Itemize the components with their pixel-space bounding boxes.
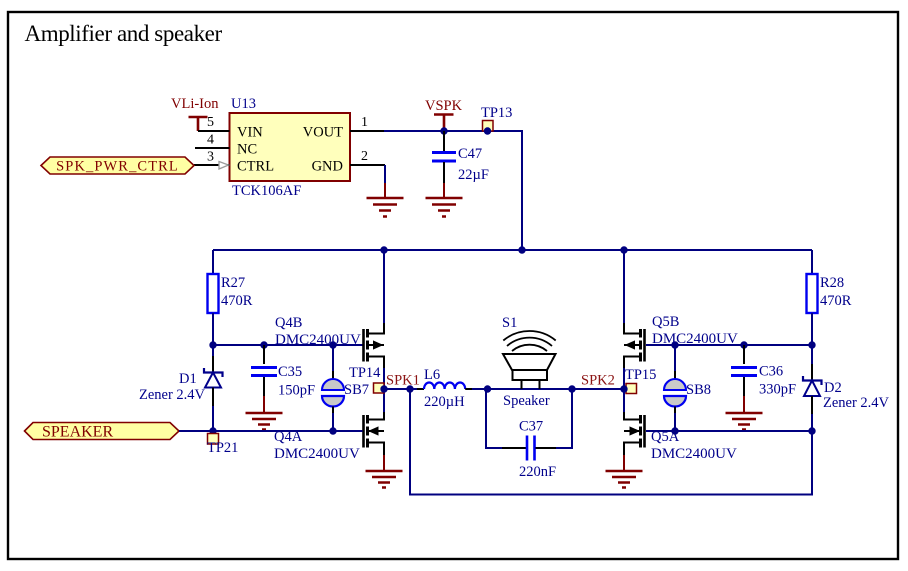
svg-text:470R: 470R: [820, 293, 852, 309]
resistor R27: [208, 250, 253, 345]
ground below C47: [426, 183, 463, 217]
capacitor C36: [731, 345, 796, 398]
svg-text:SPEAKER: SPEAKER: [42, 424, 113, 441]
ground below C35: [246, 396, 283, 430]
U13 pin 4 NC stub: [195, 133, 230, 149]
svg-text:Zener 2.4V: Zener 2.4V: [823, 395, 890, 411]
inductor L6: [417, 367, 472, 410]
junction left gate at SB7: [329, 341, 336, 348]
svg-text:Zener 2.4V: Zener 2.4V: [139, 387, 206, 403]
svg-text:Q5B: Q5B: [652, 314, 679, 330]
ground below U13: [367, 183, 404, 217]
speaker S1: [502, 315, 556, 409]
ground below C36: [726, 396, 763, 430]
svg-text:U13: U13: [231, 96, 256, 112]
junction SPEAKER at SB7: [329, 427, 336, 434]
svg-text:220nF: 220nF: [519, 464, 556, 480]
svg-text:VIN: VIN: [237, 125, 263, 141]
svg-text:220µH: 220µH: [424, 394, 465, 410]
svg-text:S1: S1: [502, 315, 517, 331]
junction SPK2 node: [620, 385, 627, 392]
svg-text:DMC2400UV: DMC2400UV: [651, 446, 737, 462]
svg-text:2: 2: [361, 149, 368, 164]
junction SPK1 at bottom loop: [406, 385, 413, 392]
solder bridge SB7: [322, 345, 369, 431]
ground below Q4A: [366, 455, 403, 488]
junction right gate at R28: [808, 341, 815, 348]
diode D2 zener: [803, 345, 890, 431]
junction left gate at C35: [260, 341, 267, 348]
svg-text:150pF: 150pF: [278, 383, 315, 399]
wire L6 to speaker: [472, 388, 624, 390]
junction SPK1 node: [380, 385, 387, 392]
test point TP13: [481, 105, 512, 131]
svg-text:Q4B: Q4B: [275, 315, 302, 331]
junction speaker right: [568, 385, 575, 392]
capacitor C47: [432, 131, 489, 183]
capacitor C37: [486, 389, 572, 480]
capacitor C35: [251, 345, 315, 399]
port SPK_PWR_CTRL: [41, 157, 194, 175]
svg-text:DMC2400UV: DMC2400UV: [274, 446, 360, 462]
U13 pin 5 VIN stub: [198, 115, 230, 131]
svg-text:3: 3: [207, 150, 214, 165]
wire bottom loop SPK1 to right rail: [410, 389, 812, 495]
svg-text:C47: C47: [458, 146, 482, 162]
svg-text:4: 4: [207, 133, 214, 148]
solder bridge SB8: [664, 345, 711, 431]
svg-text:SPK2: SPK2: [581, 373, 615, 389]
junction SPEAKER at D1: [209, 427, 216, 434]
U13 pin 2 GND stub: [350, 149, 385, 165]
diode D1 zener: [139, 345, 223, 431]
svg-text:R28: R28: [820, 275, 844, 291]
svg-text:VLi-Ion: VLi-Ion: [171, 96, 219, 112]
svg-text:DMC2400UV: DMC2400UV: [652, 331, 738, 347]
svg-text:TP13: TP13: [481, 105, 512, 121]
op-amp U13 body: [230, 113, 351, 181]
junction top bus at Q5B drain: [620, 246, 627, 253]
svg-text:5: 5: [207, 115, 214, 130]
wire VOUT net to VSPK and corner: [384, 131, 522, 250]
power port VLi-Ion: [171, 96, 219, 131]
svg-text:DMC2400UV: DMC2400UV: [275, 332, 361, 348]
wire SPK1 node to L6: [384, 388, 417, 390]
svg-text:C37: C37: [519, 419, 543, 435]
svg-text:VOUT: VOUT: [303, 125, 343, 141]
svg-text:1: 1: [361, 115, 368, 130]
svg-text:CTRL: CTRL: [237, 159, 274, 175]
junction top bus at Q4B drain: [380, 246, 387, 253]
wire top bus: [213, 249, 812, 251]
junction top bus at center: [518, 246, 525, 253]
svg-text:SPK_PWR_CTRL: SPK_PWR_CTRL: [56, 159, 179, 175]
wire left gate line: [213, 344, 363, 346]
svg-text:D2: D2: [824, 380, 842, 396]
junction at VSPK: [440, 127, 447, 134]
svg-text:Speaker: Speaker: [503, 393, 550, 409]
junction right lower gate at rail: [808, 427, 815, 434]
port SPEAKER: [25, 423, 180, 441]
wire right gate line lower: [646, 430, 812, 432]
svg-text:TCK106AF: TCK106AF: [232, 183, 301, 199]
svg-text:D1: D1: [179, 371, 197, 387]
svg-text:TP14: TP14: [349, 365, 381, 381]
junction right gate at SB8: [671, 341, 678, 348]
svg-text:SB8: SB8: [686, 382, 711, 398]
transistor Q4A: [274, 389, 384, 462]
svg-text:330pF: 330pF: [759, 382, 796, 398]
junction at TP13: [484, 127, 491, 134]
test point TP21: [207, 434, 238, 457]
resistor R28: [807, 250, 852, 345]
svg-text:Amplifier and speaker: Amplifier and speaker: [25, 21, 223, 46]
test point TP15: [625, 367, 656, 394]
svg-text:470R: 470R: [221, 293, 253, 309]
svg-text:L6: L6: [424, 367, 440, 383]
U13 pin 3 CTRL stub: [194, 150, 230, 170]
svg-text:TP15: TP15: [625, 367, 656, 383]
svg-text:VSPK: VSPK: [425, 98, 463, 114]
test point TP14: [349, 365, 384, 393]
transistor Q4B: [275, 250, 384, 389]
svg-text:TP21: TP21: [207, 440, 238, 456]
svg-text:SB7: SB7: [344, 382, 369, 398]
transistor Q5B: [624, 250, 738, 389]
junction right lower gate at SB8: [671, 427, 678, 434]
svg-text:C36: C36: [759, 364, 783, 380]
svg-text:GND: GND: [312, 159, 343, 175]
wire U13 GND pin down: [384, 165, 386, 183]
junction left gate at R27: [209, 341, 216, 348]
svg-text:SPK1: SPK1: [386, 373, 420, 389]
junction right gate at C36: [740, 341, 747, 348]
wire SPEAKER net to Q4A gate: [179, 430, 363, 432]
svg-text:NC: NC: [237, 142, 257, 158]
ground below Q5A: [606, 455, 643, 488]
power port VSPK: [425, 98, 463, 131]
svg-text:22µF: 22µF: [458, 167, 489, 183]
svg-text:R27: R27: [221, 275, 245, 291]
U13 pin 1 VOUT stub: [350, 115, 384, 131]
svg-text:C35: C35: [278, 364, 302, 380]
junction speaker left: [484, 385, 491, 392]
wire right gate line upper: [646, 344, 812, 346]
transistor Q5A: [624, 389, 737, 462]
